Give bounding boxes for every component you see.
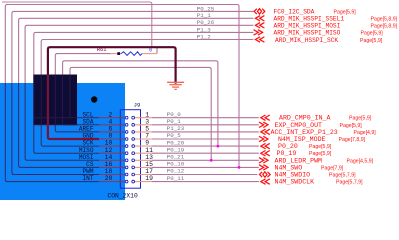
svg-text:18: 18 [105, 168, 113, 175]
svg-text:0: 0 [149, 48, 152, 54]
svg-text:P1_2: P1_2 [197, 33, 211, 40]
wire SCL vertical over block [69, 75, 71, 118]
svg-text:5: 5 [145, 126, 149, 133]
svg-text:11: 11 [145, 147, 153, 154]
wire P0_12 row [152, 174, 258, 176]
black junction dot on selection [91, 96, 97, 102]
pin 17 stub [135, 174, 152, 176]
svg-text:9: 9 [145, 140, 149, 147]
svg-text:ARD_CMP0_IN_A: ARD_CMP0_IN_A [279, 115, 330, 122]
pin circles row 1 [125, 116, 128, 119]
svg-text:4: 4 [108, 118, 112, 125]
junction dot P0_10 row [238, 166, 241, 169]
svg-text:INT: INT [83, 175, 94, 182]
wire SDA net inside selection [63, 83, 99, 125]
svg-text:SCL: SCL [83, 111, 94, 118]
wire P0_19 row [152, 152, 259, 154]
svg-text:Page[5,9]: Page[5,9] [360, 38, 383, 44]
svg-text:P0_19: P0_19 [277, 150, 297, 157]
wire MISO pin12 net [34, 32, 254, 153]
pin 7 stub [135, 138, 152, 140]
selection solid cover [0, 83, 125, 200]
pin 13 stub [135, 159, 152, 161]
svg-text:AREF: AREF [79, 126, 94, 133]
connector J9 body [120, 110, 140, 189]
port EXP_CMP0_OUT [259, 122, 268, 127]
wire MOSI pin14 net [25, 25, 253, 160]
svg-text:16: 16 [105, 161, 113, 168]
pin 4 stub [99, 124, 125, 126]
wire SCK vertical over block [40, 75, 42, 125]
svg-text:ARD_MIK_HSSPI_MOSI: ARD_MIK_HSSPI_MOSI [274, 23, 341, 30]
wire SCL net inside selection [70, 83, 99, 118]
svg-text:6: 6 [108, 126, 112, 133]
wire MISO net inside selection [34, 83, 99, 153]
svg-text:MISO: MISO [79, 147, 94, 154]
resistor R61 [110, 52, 157, 56]
wire AREF pin6 net to R61 [55, 54, 112, 132]
wire SCK net inside selection [41, 83, 99, 146]
port P0_19 [261, 151, 270, 156]
wire segments crossing block [34, 75, 78, 125]
wire P0_1 row [152, 124, 259, 126]
top net labels [197, 5, 215, 40]
svg-text:MOSI: MOSI [79, 154, 94, 161]
wire AREF net inside selection [55, 83, 99, 132]
svg-text:Page[5,9]: Page[5,9] [349, 116, 372, 122]
pin 20 stub [99, 181, 125, 183]
wires inside selection [5, 83, 99, 182]
svg-text:7: 7 [145, 133, 149, 140]
svg-text:2: 2 [108, 111, 112, 118]
pin 3 stub [135, 124, 152, 126]
selection highlight rectangle [0, 83, 125, 200]
wire R61 link to GND net [156, 47, 158, 53]
pin circles row 4 [125, 138, 128, 141]
svg-text:P0_11: P0_11 [167, 175, 185, 182]
svg-text:R61: R61 [97, 47, 107, 53]
svg-text:P0_10: P0_10 [167, 161, 185, 168]
svg-text:P0_0: P0_0 [167, 111, 181, 118]
pin circles row 10 [125, 180, 128, 183]
svg-text:N4M_SWO: N4M_SWO [275, 164, 303, 171]
pin circles row 7 [125, 159, 128, 162]
pin 11 stub [135, 152, 152, 154]
svg-text:8: 8 [108, 133, 112, 140]
wire sheet top gnd feed [2, 2, 152, 47]
wire INT net inside selection [5, 83, 99, 182]
ground symbol [167, 82, 184, 89]
port FC0_I2C_SDA [254, 9, 265, 14]
top-right off-page ports [254, 9, 265, 43]
pin 8 stub [99, 138, 125, 140]
pin circles row 2 [125, 123, 128, 126]
wire CS net inside selection [19, 83, 99, 167]
pin 6 stub [99, 131, 125, 133]
svg-text:P0_20: P0_20 [167, 139, 185, 146]
junction dot P0_20 row [217, 145, 220, 148]
svg-text:ARD_MIK_HSSPI_MISO: ARD_MIK_HSSPI_MISO [274, 30, 341, 37]
svg-text:CON_2X10: CON_2X10 [108, 193, 138, 200]
svg-text:Page[5,9]: Page[5,9] [309, 151, 332, 157]
pin 9 stub [135, 145, 152, 147]
svg-text:1: 1 [145, 111, 149, 118]
wire P0_21 row [152, 159, 259, 161]
svg-text:19: 19 [145, 175, 153, 182]
svg-text:EXP_CMP0_OUT: EXP_CMP0_OUT [275, 122, 323, 129]
pin 15 stub [135, 166, 152, 168]
svg-text:PWM: PWM [83, 168, 94, 175]
pin stubs left [99, 118, 125, 182]
pin 19 stub [135, 181, 152, 183]
svg-text:N4M_SWDCLK: N4M_SWDCLK [275, 179, 315, 186]
pin 16 stub [99, 166, 125, 168]
pin circles row 3 [125, 131, 128, 134]
wire P0_10 row [152, 166, 259, 168]
wire CS pin16 net [19, 18, 254, 167]
pin circles [125, 116, 134, 183]
svg-text:10: 10 [105, 140, 113, 147]
wire GND pin8 thick net [48, 47, 176, 139]
pin 5 stub [135, 131, 152, 133]
svg-text:P0_19: P0_19 [167, 146, 185, 153]
wire PWM net inside selection [12, 83, 99, 175]
port ARD_MIK_HSSPI_MISO [254, 30, 263, 35]
resistor junction square [117, 52, 120, 55]
svg-text:20: 20 [105, 175, 113, 182]
svg-text:P0_21: P0_21 [167, 154, 185, 161]
svg-text:3: 3 [145, 118, 149, 125]
port ARD_MIK_HSSPI_SCK [255, 37, 264, 42]
wire SDA vertical over block [62, 75, 64, 125]
port N4M_SWDCLK [261, 179, 270, 184]
wire AREF vertical over block [54, 75, 56, 125]
pin circles row 6 [125, 152, 128, 155]
svg-text:SDA: SDA [83, 118, 94, 125]
pin 2 stub [99, 117, 125, 119]
wire MISO vertical over block [33, 75, 35, 125]
wire MOSI net inside selection [25, 83, 99, 160]
port N4M_SWO [259, 165, 268, 170]
svg-text:N4M_ISP_MODE: N4M_ISP_MODE [278, 136, 326, 143]
port ARD_LEDR_PWM [259, 158, 268, 163]
svg-text:P1_3: P1_3 [197, 26, 211, 33]
svg-text:P0_5: P0_5 [167, 132, 181, 139]
wire INT pin20 net [5, 5, 239, 182]
pin circles row 8 [125, 166, 128, 169]
wire SDA pin4 net [63, 61, 218, 146]
svg-text:P0_12: P0_12 [167, 168, 185, 175]
svg-text:ARD_MIK_HSSPI_SCK: ARD_MIK_HSSPI_SCK [275, 37, 338, 44]
wire SCL pin2 net [70, 67, 211, 160]
pin circles row 5 [125, 145, 128, 148]
svg-text:Page[5,9]: Page[5,9] [309, 144, 332, 150]
wire P0_5 row [152, 138, 259, 140]
thick gnd wire inside selection [48, 75, 99, 140]
svg-text:GND: GND [83, 133, 94, 140]
svg-text:ARD_LEDR_PWM: ARD_LEDR_PWM [275, 157, 323, 164]
svg-text:J9: J9 [134, 102, 141, 109]
svg-text:Page[4,9]: Page[4,9] [354, 130, 377, 136]
svg-text:P1_23: P1_23 [167, 125, 185, 132]
pin numbers right column [145, 111, 153, 182]
svg-text:Page[5,9]: Page[5,9] [361, 31, 384, 37]
wire SCL row over block [34, 117, 78, 119]
svg-text:ACC_INT_EXP_P1_23: ACC_INT_EXP_P1_23 [271, 129, 338, 136]
svg-text:Page[4,5,9]: Page[4,5,9] [347, 158, 374, 164]
svg-text:Page[5,8,9]: Page[5,8,9] [371, 24, 398, 30]
svg-text:Page[7,8,9]: Page[7,8,9] [339, 137, 366, 143]
svg-text:17: 17 [145, 168, 153, 175]
wire P1_23 row [152, 131, 259, 133]
port N4M_SWDIO [260, 172, 271, 177]
port ARD_MIK_HSSPI_SSEL1 [255, 16, 264, 21]
svg-text:12: 12 [105, 147, 113, 154]
pin stubs right [135, 118, 152, 182]
bottom-right off-page ports [259, 115, 270, 184]
pin numbers left column [105, 111, 113, 182]
pin circles row 9 [125, 173, 128, 176]
port ARD_CMP0_IN_A [261, 115, 270, 120]
svg-text:14: 14 [105, 154, 113, 161]
svg-text:P0_26: P0_26 [197, 19, 215, 26]
svg-text:Page[5,9]: Page[5,9] [340, 123, 363, 129]
pin 10 stub [99, 145, 125, 147]
wire P0_20 row [152, 145, 259, 147]
pin 14 stub [99, 159, 125, 161]
port ACC_INT_EXP_P1_23 [261, 129, 270, 134]
svg-text:Page[5,7,9]: Page[5,7,9] [329, 173, 356, 179]
pin 1 stub [135, 117, 152, 119]
svg-text:13: 13 [145, 154, 153, 161]
svg-text:Page[7,9]: Page[7,9] [321, 165, 344, 171]
svg-text:ARD_MIK_HSSPI_SSEL1: ARD_MIK_HSSPI_SSEL1 [274, 16, 345, 23]
svg-text:15: 15 [145, 161, 153, 168]
svg-text:Page[5,7,9]: Page[5,7,9] [336, 180, 363, 186]
svg-text:CS: CS [86, 161, 94, 168]
port N4M_ISP_MODE [259, 136, 268, 141]
svg-text:SCK: SCK [83, 140, 94, 147]
port P0_20 [261, 143, 270, 148]
svg-text:N4M_SWDIO: N4M_SWDIO [275, 172, 311, 179]
pin 12 stub [99, 152, 125, 154]
svg-text:P0_1: P0_1 [167, 118, 181, 125]
right net labels [167, 111, 185, 182]
svg-text:P0_20: P0_20 [278, 143, 298, 150]
wire SCK pin10 net [41, 40, 253, 147]
wire P0_11 row [152, 181, 259, 183]
wire SDA row over block [34, 124, 78, 126]
svg-text:P1_1: P1_1 [197, 12, 211, 19]
port ARD_MIK_HSSPI_MOSI [255, 23, 264, 28]
wire PWM pin18 net [12, 11, 254, 174]
wire P0_0 row [152, 117, 259, 119]
pin 18 stub [99, 174, 125, 176]
junction dot P0_21 row [210, 159, 213, 162]
left pin name labels [79, 111, 94, 182]
svg-text:Page[5,8,9]: Page[5,8,9] [371, 17, 398, 23]
chip block dark rectangle [34, 75, 78, 125]
